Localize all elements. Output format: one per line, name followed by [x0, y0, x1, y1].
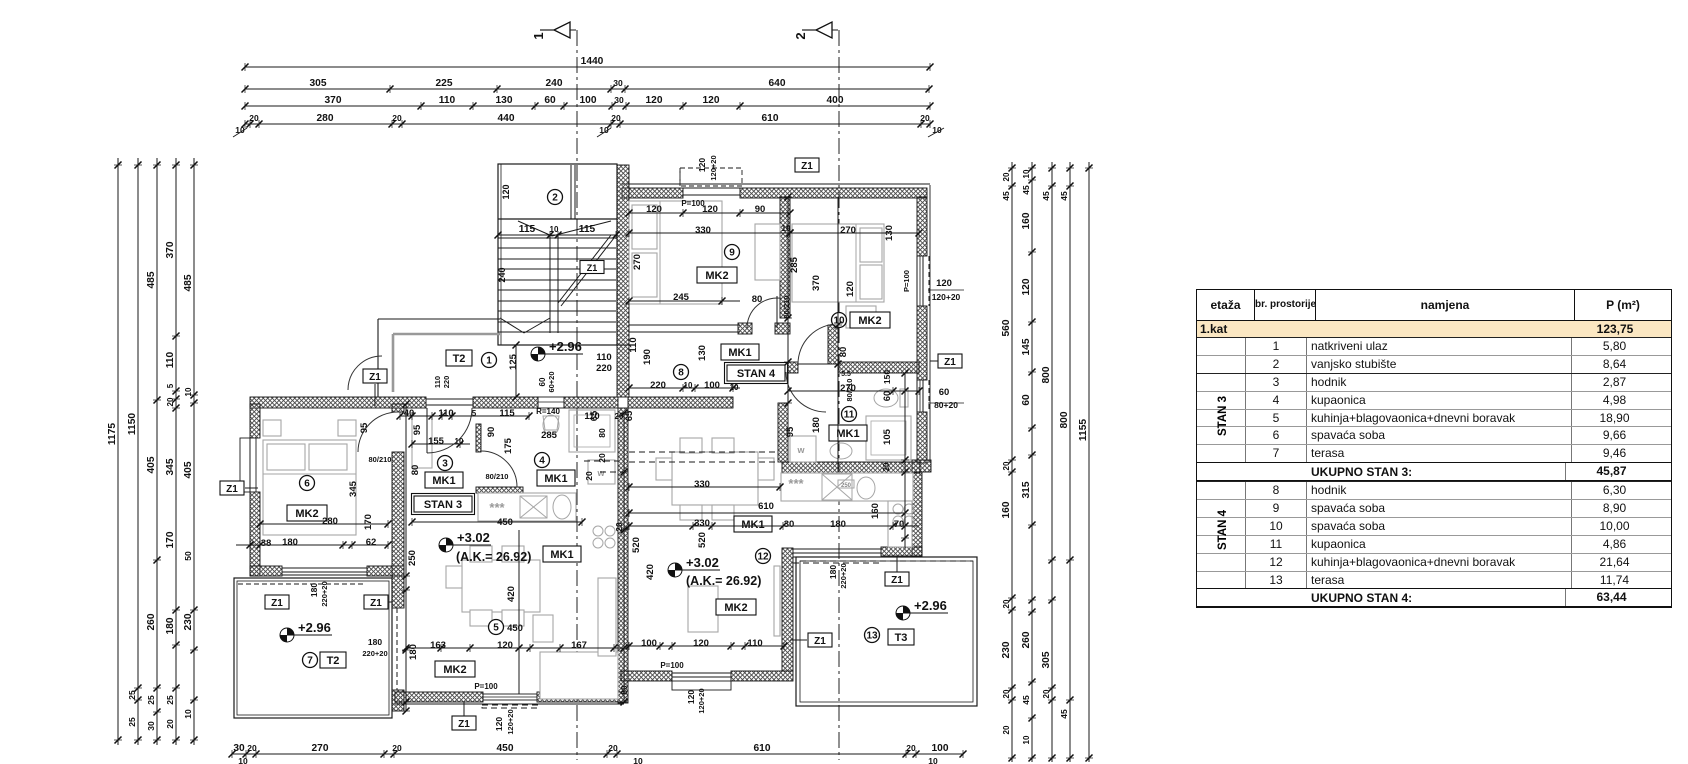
svg-text:(A.K.= 26.92): (A.K.= 26.92) [686, 574, 761, 588]
room 1 circle [482, 353, 497, 368]
label Z1 right NE [938, 354, 962, 368]
svg-text:220: 220 [596, 363, 612, 374]
dimension chain left col 1 (1175) [117, 158, 119, 745]
table 1.kat summary row [1197, 321, 1671, 338]
kitchen counter stan4 right [888, 501, 912, 547]
dining table stan4 [672, 452, 758, 505]
svg-text:80/210: 80/210 [486, 472, 509, 481]
svg-text:450: 450 [497, 743, 514, 754]
svg-text:180: 180 [408, 644, 419, 660]
label Z1 terrace7 b [364, 595, 388, 609]
room 2 circle [548, 190, 563, 205]
svg-text:405: 405 [146, 456, 157, 473]
toilet bath4 [543, 415, 559, 435]
stair block outline [498, 164, 617, 345]
svg-text:20: 20 [1002, 725, 1011, 734]
svg-text:+3.02: +3.02 [457, 530, 490, 545]
svg-text:10: 10 [184, 387, 193, 396]
svg-text:w: w [796, 445, 805, 455]
svg-text:370: 370 [165, 241, 176, 258]
svg-text:130: 130 [496, 95, 513, 106]
svg-text:400: 400 [827, 95, 844, 106]
svg-text:120: 120 [693, 638, 709, 649]
svg-text:Z1: Z1 [458, 719, 470, 730]
rect living4 [688, 586, 718, 632]
label MK1 room8 [721, 344, 759, 360]
svg-text:270: 270 [840, 225, 856, 236]
table row UKUPNO STAN 4 [1197, 588, 1671, 607]
door entry [348, 356, 382, 390]
label MK2 room10 [850, 312, 890, 328]
svg-text:160: 160 [1001, 501, 1012, 518]
svg-text:MK1: MK1 [432, 475, 455, 487]
table row 13: terasa [1197, 571, 1671, 589]
balcony door opening top [683, 187, 740, 189]
svg-text:95: 95 [359, 422, 370, 433]
svg-text:30: 30 [233, 743, 245, 754]
door room10 arc [798, 324, 838, 364]
svg-text:120: 120 [703, 95, 720, 106]
svg-text:100: 100 [704, 380, 720, 391]
label MK2 living4 [716, 599, 756, 615]
window bedroom6 left [240, 438, 250, 492]
svg-text:420: 420 [506, 586, 517, 602]
nightstand room6 [263, 420, 281, 436]
STAN 4 vertical label [1217, 510, 1229, 550]
dimension chain right col 4 (800) [1069, 162, 1071, 762]
section line 1 (vertical dash-dot x=577) [576, 30, 578, 760]
room area table [1196, 289, 1672, 608]
svg-text:120+20: 120+20 [932, 292, 961, 302]
svg-text:4: 4 [539, 456, 545, 467]
svg-text:10: 10 [1022, 169, 1031, 178]
svg-text:STAN 3: STAN 3 [424, 499, 462, 511]
dining table stan3 [462, 560, 540, 612]
svg-text:MK2: MK2 [724, 602, 747, 614]
svg-text:315: 315 [1021, 481, 1032, 498]
svg-text:520: 520 [697, 532, 708, 548]
room 10 circle [832, 313, 847, 328]
svg-text:MK2: MK2 [443, 664, 466, 676]
table row 1: natkriveni ulaz [1197, 338, 1671, 355]
svg-text:7: 7 [307, 656, 313, 667]
svg-text:P=100: P=100 [474, 682, 498, 691]
svg-text:20: 20 [906, 743, 916, 753]
svg-text:20: 20 [611, 113, 621, 123]
svg-text:285: 285 [541, 430, 558, 441]
svg-text:80: 80 [838, 347, 849, 358]
svg-text:485: 485 [183, 274, 194, 291]
label T2 terrace7 [320, 652, 346, 668]
wall living4 bottom [621, 671, 672, 681]
svg-text:270: 270 [840, 383, 856, 394]
svg-text:MK2: MK2 [705, 270, 728, 282]
wall living4 right [782, 548, 793, 671]
svg-text:10: 10 [633, 756, 643, 764]
svg-text:Z1: Z1 [369, 372, 381, 383]
wall hall8/room10 divider [828, 325, 838, 364]
dimension chain top row 2 (305/225/240/30/640) [245, 88, 930, 90]
label Z1 left window [220, 481, 244, 495]
svg-text:225: 225 [436, 78, 453, 89]
svg-text:MK2: MK2 [295, 508, 318, 520]
table row 12: kuhinja+blagovaonica+dnevni boravak [1197, 553, 1671, 571]
room 12 circle [756, 549, 771, 564]
svg-text:5: 5 [166, 383, 175, 388]
svg-text:+2.96: +2.96 [549, 339, 582, 354]
label MK2 living3 [435, 661, 475, 677]
room 8 circle [674, 365, 689, 380]
svg-text:20: 20 [392, 113, 402, 123]
label Z1 entry [363, 369, 387, 383]
svg-text:150: 150 [882, 370, 892, 384]
svg-text:5.5: 5.5 [841, 371, 851, 378]
terrace 13 outline [796, 557, 977, 706]
svg-text:MK1: MK1 [728, 347, 751, 359]
label MK1 bath11 [829, 425, 867, 441]
STAN 3 vertical label [1217, 396, 1229, 436]
table row 9: spavaća soba [1197, 499, 1671, 517]
label MK2 room9 [697, 267, 737, 283]
svg-text:80/210: 80/210 [369, 455, 392, 464]
svg-text:1440: 1440 [581, 56, 604, 67]
room 7 circle [303, 653, 318, 668]
svg-text:80/210: 80/210 [782, 296, 791, 319]
svg-text:25: 25 [146, 695, 156, 705]
svg-text:250: 250 [841, 483, 852, 489]
sink bath11 oval [830, 443, 852, 459]
window NE right upper [916, 256, 918, 306]
svg-text:120: 120 [936, 278, 952, 289]
svg-text:MK1: MK1 [741, 519, 764, 531]
svg-text:120: 120 [686, 690, 696, 704]
svg-text:45: 45 [1059, 191, 1069, 201]
stair Z1 marker [580, 261, 604, 274]
door bedroom6 [358, 412, 398, 452]
svg-text:50: 50 [183, 551, 193, 561]
svg-text:20: 20 [584, 471, 594, 481]
room 4 circle [535, 453, 550, 468]
svg-text:8: 8 [678, 368, 684, 379]
svg-text:80: 80 [597, 428, 607, 438]
svg-text:2: 2 [552, 193, 558, 204]
svg-text:20: 20 [1042, 689, 1051, 698]
svg-text:370: 370 [325, 95, 342, 106]
wall STAN divider (x618-628) [618, 408, 628, 703]
label MK1 kitchen3 [543, 546, 581, 562]
bed room10 [792, 224, 884, 302]
washer bath11 [790, 436, 816, 462]
wardrobe room9 [755, 224, 780, 280]
table row 5: kuhinja+blagovaonica+dnevni boravak [1197, 409, 1671, 427]
svg-text:110: 110 [433, 376, 442, 388]
label STAN 4 [727, 365, 785, 381]
wall NE step right [912, 460, 931, 472]
svg-text:120: 120 [494, 717, 504, 731]
svg-text:10: 10 [550, 225, 559, 234]
wall bath11 left [778, 403, 788, 462]
label Z1 terrace13 top [885, 572, 909, 586]
svg-text:T2: T2 [327, 655, 340, 667]
window living3 bottom [483, 694, 537, 700]
interior vertical dimension lines [623, 413, 625, 702]
shower bath11 [866, 416, 911, 460]
svg-text:Z1: Z1 [814, 636, 826, 647]
room 9 circle [725, 245, 740, 260]
level mark stan3 [446, 538, 453, 545]
svg-text:***: *** [788, 476, 804, 491]
svg-text:110: 110 [596, 352, 611, 363]
svg-text:45: 45 [1001, 191, 1011, 201]
svg-text:800: 800 [1041, 366, 1052, 383]
svg-text:120+20: 120+20 [506, 709, 515, 734]
table row 6: spavaća soba [1197, 426, 1671, 444]
kitchen sink stan3 [520, 496, 547, 518]
wall under room9 [738, 323, 752, 334]
svg-text:P=100: P=100 [681, 199, 705, 208]
svg-text:610: 610 [754, 743, 771, 754]
svg-text:20: 20 [597, 453, 607, 463]
svg-text:180: 180 [368, 637, 382, 647]
svg-text:450: 450 [507, 623, 523, 634]
svg-text:(A.K.= 26.92): (A.K.= 26.92) [456, 550, 531, 564]
svg-text:640: 640 [769, 78, 786, 89]
dimension chain top row 3 (370/110/130/60/100/30/120/400) [245, 105, 930, 107]
wall bedroom9/10 divider [780, 197, 790, 318]
wall bedroom6 right / living3 west [392, 404, 404, 412]
svg-text:P=100: P=100 [902, 270, 911, 292]
svg-text:420: 420 [645, 564, 656, 580]
svg-text:95: 95 [412, 424, 423, 435]
svg-text:220: 220 [650, 380, 666, 391]
svg-text:+3.02: +3.02 [686, 555, 719, 570]
stove stan3 [593, 526, 603, 536]
sofa living4 [598, 578, 616, 656]
stair inner top room line [498, 218, 617, 220]
stair center rail [549, 235, 551, 333]
dimension chain left col 5 (485/10/405/230) [193, 158, 195, 745]
svg-text:65: 65 [589, 410, 600, 421]
svg-text:45: 45 [1059, 709, 1069, 719]
svg-text:20: 20 [920, 113, 930, 123]
dimension chain right col 1 (45/560/160/230) [1011, 162, 1013, 762]
svg-text:80: 80 [410, 465, 421, 476]
svg-text:180: 180 [165, 617, 176, 634]
label Z1 living4 window [808, 633, 832, 647]
table header row [1197, 290, 1671, 321]
sofa stan3 [540, 652, 618, 699]
svg-text:+2.96: +2.96 [298, 620, 331, 635]
wall NE right (x919-931) [917, 197, 927, 256]
bath niche window [538, 397, 564, 408]
svg-text:280: 280 [322, 516, 338, 527]
svg-text:110: 110 [165, 351, 176, 368]
section marker 1 top [554, 22, 570, 38]
svg-text:MK1: MK1 [550, 549, 573, 561]
svg-text:800: 800 [1059, 411, 1070, 428]
svg-text:60: 60 [544, 95, 556, 106]
stair dim line [498, 234, 616, 236]
svg-text:20: 20 [608, 743, 618, 753]
table row 10: spavaća soba [1197, 517, 1671, 535]
svg-text:405: 405 [183, 461, 194, 478]
svg-text:Z1: Z1 [370, 598, 382, 609]
label MK1 room3 [425, 472, 463, 488]
svg-text:12: 12 [757, 552, 769, 563]
table row 11: kupaonica [1197, 535, 1671, 553]
svg-text:40: 40 [404, 408, 415, 419]
svg-text:100: 100 [580, 95, 597, 106]
svg-text:345: 345 [348, 480, 359, 497]
svg-text:T2: T2 [453, 353, 466, 365]
svg-text:270: 270 [632, 254, 643, 270]
svg-text:1150: 1150 [127, 413, 138, 435]
svg-text:520: 520 [631, 537, 642, 553]
window kitchen4 to terrace [793, 548, 881, 550]
svg-text:180: 180 [309, 583, 319, 597]
svg-text:115: 115 [499, 408, 515, 419]
room 3 circle [438, 456, 453, 471]
svg-text:260: 260 [146, 613, 157, 630]
svg-text:20: 20 [882, 462, 891, 471]
interior dimension lines [629, 212, 790, 214]
svg-text:100: 100 [641, 638, 657, 649]
svg-text:***: *** [489, 500, 505, 515]
door living3 to terrace (dashed) [396, 608, 398, 690]
svg-text:220+20: 220+20 [320, 581, 329, 606]
dimension chain bottom (30/20/270/20/450/20/610/20/100) [232, 753, 963, 755]
svg-text:2: 2 [793, 32, 808, 39]
svg-text:280: 280 [317, 113, 334, 124]
svg-text:175: 175 [503, 437, 514, 454]
svg-text:115: 115 [579, 224, 596, 235]
svg-text:Z1: Z1 [226, 484, 238, 495]
svg-text:610: 610 [762, 113, 779, 124]
terrace 7 outline [234, 578, 392, 718]
svg-text:20: 20 [1002, 599, 1011, 608]
svg-text:485: 485 [146, 271, 157, 288]
toilet bath11 [874, 389, 898, 407]
svg-text:370: 370 [811, 275, 822, 291]
room 13 circle [865, 628, 880, 643]
stair treads [498, 237, 616, 239]
label T2 hall [446, 350, 472, 366]
svg-text:230: 230 [1001, 641, 1012, 658]
svg-text:25: 25 [127, 717, 137, 727]
svg-text:10: 10 [238, 756, 248, 764]
room 5 circle [489, 620, 504, 635]
svg-text:285: 285 [789, 256, 800, 273]
label T3 terrace13 [888, 629, 914, 645]
svg-text:20: 20 [1002, 689, 1011, 698]
svg-text:5: 5 [472, 409, 477, 418]
svg-text:90: 90 [486, 427, 497, 438]
balcony dashed above [680, 168, 742, 186]
dimension chain top row 1 (1440) [245, 66, 930, 68]
svg-text:20: 20 [249, 113, 259, 123]
svg-text:10: 10 [1022, 735, 1031, 744]
svg-text:145: 145 [1021, 338, 1032, 355]
kitchen counter stan3 [478, 493, 576, 521]
svg-text:25: 25 [127, 690, 137, 700]
label MK1 kitchen4 [734, 516, 772, 532]
svg-text:305: 305 [310, 78, 327, 89]
svg-text:30: 30 [146, 721, 156, 731]
svg-text:110: 110 [439, 95, 456, 106]
svg-text:80: 80 [752, 294, 763, 305]
svg-text:120: 120 [845, 281, 856, 297]
svg-text:120: 120 [501, 184, 511, 199]
svg-text:60+20: 60+20 [547, 371, 556, 392]
window living4 bottom [672, 681, 731, 690]
svg-text:3: 3 [442, 459, 448, 470]
hall entry outline [377, 319, 379, 397]
svg-text:20: 20 [247, 743, 257, 753]
svg-text:1175: 1175 [107, 423, 118, 445]
svg-text:115: 115 [519, 224, 536, 235]
svg-text:180: 180 [282, 537, 298, 548]
table row 4: kupaonica [1197, 391, 1671, 409]
svg-text:560: 560 [1001, 319, 1012, 336]
table row 7: terasa [1197, 444, 1671, 462]
svg-text:Z1: Z1 [271, 598, 283, 609]
svg-text:130: 130 [697, 345, 708, 361]
dimension chain left col 3 (485/405/260) [156, 158, 158, 745]
svg-text:170: 170 [165, 531, 176, 548]
svg-text:MK1: MK1 [836, 428, 859, 440]
svg-text:345: 345 [165, 458, 176, 475]
table row 3: hodnik [1197, 373, 1671, 391]
svg-text:180: 180 [811, 417, 822, 433]
window NE right lower [916, 380, 918, 412]
dimension chain right col 5 (1155) [1088, 162, 1090, 762]
svg-text:120: 120 [497, 640, 513, 651]
svg-text:105: 105 [882, 428, 893, 445]
svg-text:10: 10 [782, 224, 791, 233]
svg-text:13: 13 [866, 631, 878, 642]
svg-text:T3: T3 [895, 632, 908, 644]
door bath11 [786, 372, 826, 412]
svg-text:260: 260 [1021, 631, 1032, 648]
svg-text:120+20: 120+20 [697, 688, 706, 713]
svg-text:180: 180 [828, 565, 838, 579]
svg-text:330: 330 [694, 479, 710, 490]
kitchen oval stan4 [857, 477, 875, 499]
svg-text:330: 330 [695, 225, 711, 236]
svg-text:Z1: Z1 [944, 357, 956, 368]
svg-text:305: 305 [1041, 651, 1052, 668]
svg-text:440: 440 [498, 113, 515, 124]
dimension chain right col 2 (160/120/145/60/315/260) [1031, 162, 1033, 762]
svg-text:20: 20 [392, 743, 402, 753]
svg-text:+2.96: +2.96 [914, 598, 947, 613]
table row 2: vanjsko stubište [1197, 355, 1671, 373]
svg-text:Z1: Z1 [891, 575, 903, 586]
wall living3 bottom [395, 692, 483, 702]
svg-text:125: 125 [508, 353, 519, 370]
svg-text:180: 180 [830, 519, 846, 530]
room 11 circle [842, 407, 857, 422]
svg-text:10: 10 [183, 709, 193, 719]
door hall3 [427, 408, 472, 453]
svg-text:220: 220 [442, 376, 451, 389]
wall bedroom6 bottom [250, 566, 282, 576]
svg-text:120: 120 [697, 158, 707, 172]
kitchen sink stan4 [822, 474, 852, 500]
dimension chain right col 3 (800/305) [1051, 162, 1053, 762]
svg-text:62: 62 [366, 537, 377, 548]
label Z1 bottom center [452, 716, 476, 730]
